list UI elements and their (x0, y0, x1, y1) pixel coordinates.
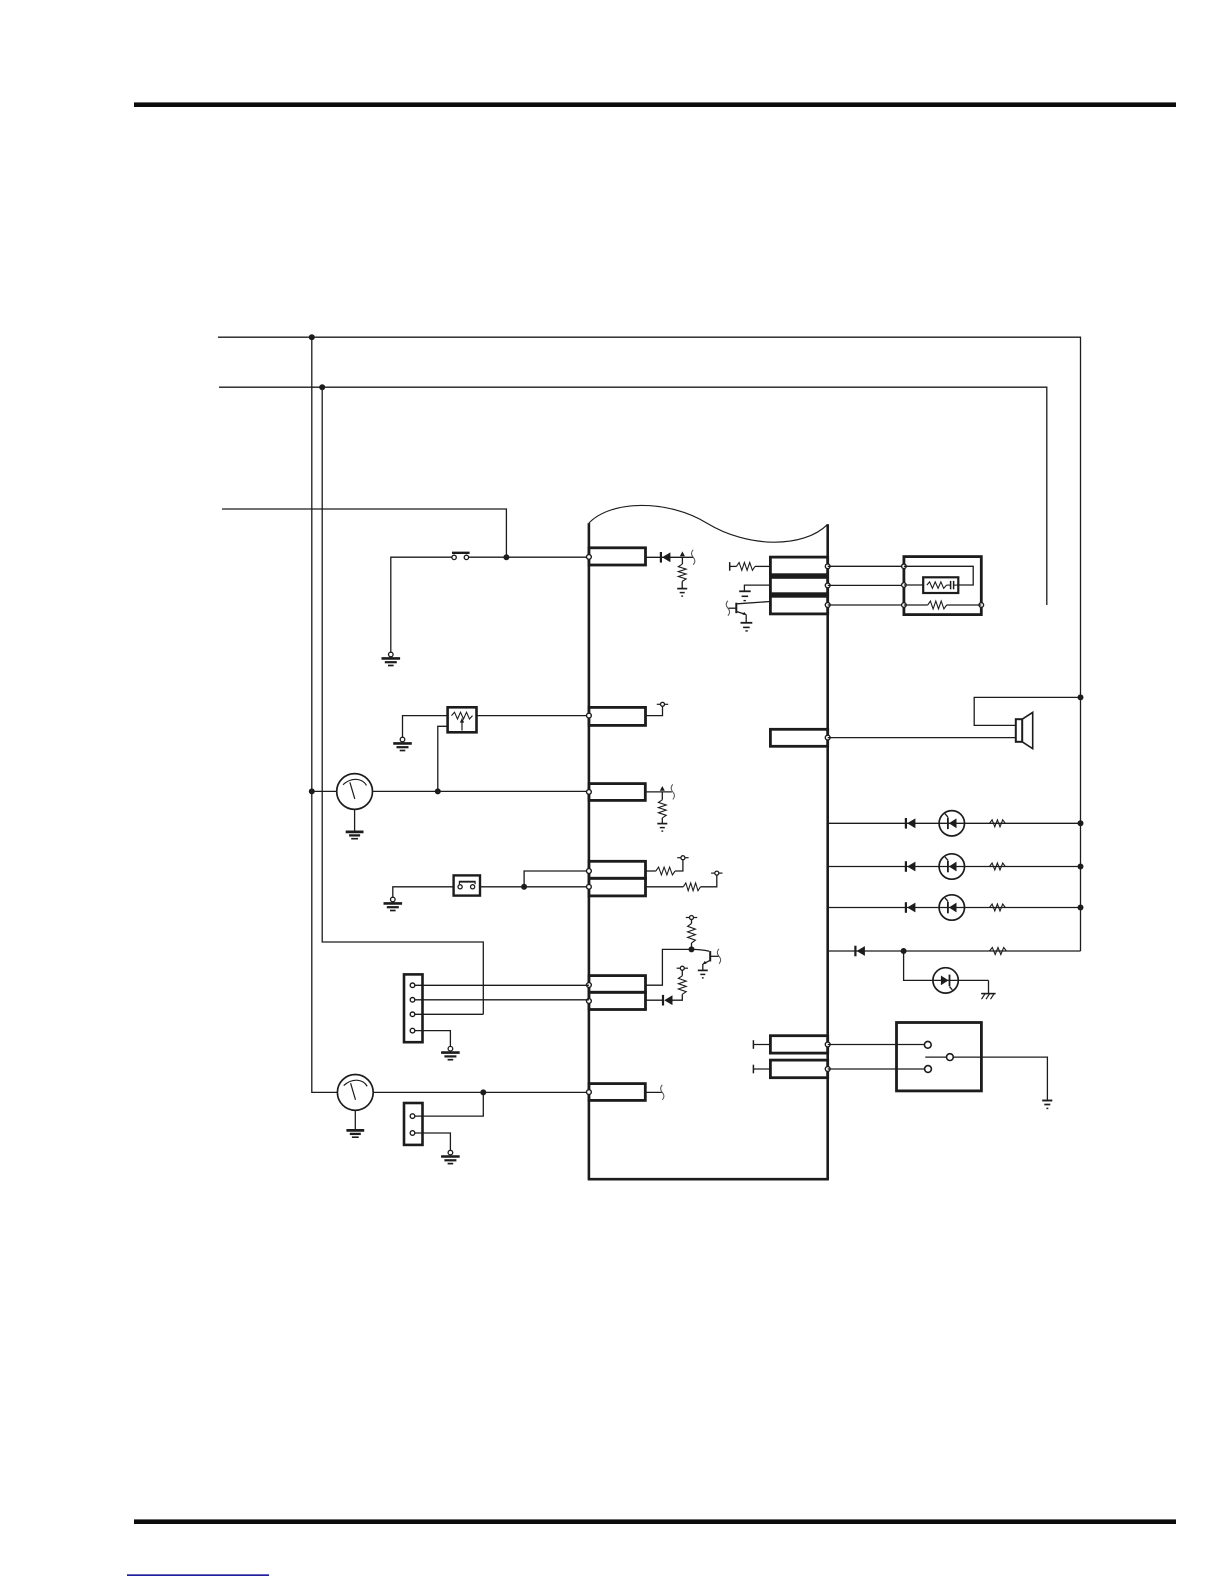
wire LED row 2 (828, 866, 1081, 868)
wire TP3 to R5 (691, 920, 693, 924)
wire Q2r to spark killer (828, 584, 904, 586)
wire M2 to P8 (373, 1091, 589, 1093)
switch S1 pushbutton (452, 553, 470, 560)
node bus3 junction (503, 554, 509, 560)
wire P8 internal (645, 1091, 662, 1093)
wire R2 to ground (661, 818, 663, 824)
ground G10 (441, 1150, 460, 1163)
transistor Q1 collector wire (737, 602, 770, 604)
wire R6 to TP4 (681, 970, 683, 976)
wire Q2 emitter to ground (702, 964, 704, 970)
resistor R12 (990, 904, 1006, 911)
connector SPK right (770, 729, 827, 746)
terminal TP2 (711, 871, 722, 875)
terminal TP1 (677, 856, 688, 860)
connector J2 2-pin (404, 1103, 423, 1145)
resistor R13 (990, 948, 1007, 955)
ground G14 (1042, 1101, 1052, 1109)
terminal TP0 (657, 702, 668, 706)
ground G1 (382, 652, 401, 665)
J2 pin 2 (410, 1131, 415, 1136)
J1 pin 3 (410, 1012, 415, 1017)
wire M1 to P3 (372, 790, 589, 792)
resistor R4 (683, 883, 700, 891)
SK1 pin a (902, 564, 907, 569)
ground G11 (739, 591, 751, 600)
pin P5 (587, 884, 592, 889)
wire switch row left (391, 557, 452, 652)
wire J1-2 to P7 (415, 999, 589, 1001)
diode D4 (906, 861, 916, 872)
pin P1 (587, 555, 592, 560)
resistor R6 (678, 976, 686, 995)
wire junction to P6 (646, 949, 692, 985)
wire P3 internal (645, 791, 672, 793)
spark killer SK1 box (904, 557, 981, 615)
ground G3 (393, 737, 412, 750)
wire S3 to ground (953, 1057, 1047, 1100)
SK1 pin c (902, 603, 907, 608)
pin P2 (587, 713, 592, 718)
diode D1 (661, 552, 671, 563)
top rule (134, 102, 1176, 107)
S3 lever (925, 1056, 946, 1058)
SK1 pin d (979, 603, 984, 608)
wire break Q1 base squiggle (726, 601, 729, 616)
connector Q3 right (770, 596, 827, 614)
resistor R5 (688, 924, 696, 944)
wire break Q3 squiggle (661, 1085, 664, 1100)
wire R4 to TP2 (701, 875, 717, 887)
PCB break wavy top edge (589, 505, 828, 542)
footer link underline (127, 1574, 269, 1576)
J1 pin 1 (410, 983, 415, 988)
J2 pin 1 (410, 1114, 415, 1119)
speaker LS1 (1016, 712, 1033, 748)
wire LED4 row (933, 979, 989, 981)
J1 pin 4 (410, 1028, 415, 1033)
LED4 indicator (933, 968, 958, 993)
pin E2r (825, 1067, 830, 1072)
wire left bus2 vertical (322, 387, 483, 1014)
LED3 indicator (939, 895, 964, 920)
wire J1-1 to P6 (415, 984, 589, 986)
wire R1 to ground (681, 581, 683, 588)
wire Q3r to spark killer (828, 604, 904, 606)
wire row 4 (828, 950, 1081, 952)
node base junction (689, 946, 695, 952)
wire J1-3 (415, 1013, 484, 1015)
pin P7 (587, 999, 592, 1004)
wire M1 to ground (354, 809, 356, 831)
wire stub bracket B2 (752, 1040, 754, 1049)
connector J1 4-pin (404, 974, 423, 1042)
wire P1 internal (646, 556, 694, 558)
wire Q1 emitter to ground (745, 614, 747, 622)
potentiometer VR1 wiper (460, 718, 464, 731)
diode D6 (855, 946, 865, 957)
node LED row 1 bus (1078, 820, 1084, 826)
wire LED4 branch (904, 951, 933, 980)
connector P3 left (589, 784, 645, 801)
wire R7 to Q1 (755, 565, 770, 567)
ground G6 (384, 897, 403, 910)
node bus2 left tap (319, 384, 325, 390)
wire P7 internal (646, 999, 664, 1001)
connector E1 right (770, 1036, 827, 1053)
meter M2 (337, 1075, 373, 1111)
wire bus to speaker (974, 697, 1080, 725)
arrow junction A1 (680, 551, 685, 556)
wire bus2 rail (219, 387, 1047, 605)
SK1 pin b (902, 583, 907, 588)
wire M2 to ground (354, 1110, 356, 1130)
node M2 branch (480, 1089, 486, 1095)
wire D2 to R6 (673, 994, 683, 1000)
pin SPKr (825, 735, 830, 740)
wire Q2 internal to ground (744, 585, 770, 591)
wire stub bracket B1 (729, 562, 731, 571)
resistor R7 (737, 563, 756, 571)
node wiper junction (435, 788, 441, 794)
ground G7 (698, 970, 708, 978)
pin Q2r (825, 583, 830, 588)
pin Q3r (825, 603, 830, 608)
wire J2-2 to ground (415, 1133, 451, 1150)
wire SK1 mid (904, 584, 923, 586)
wire J1-4 to ground (415, 1031, 451, 1047)
wire SK1 bottom left (904, 604, 928, 606)
diode D5 (906, 902, 916, 913)
wire LED row 3 (828, 907, 1081, 909)
wire pot left to ground (403, 716, 448, 738)
RC capacitor C1 (947, 581, 959, 589)
wire S2 left (393, 887, 454, 897)
connector P6 left (589, 976, 646, 993)
resistor R3 (656, 867, 675, 875)
pin P6 (587, 983, 592, 988)
wire J2-1 to M2 row (415, 1092, 484, 1116)
connector P2 left (589, 707, 646, 725)
wire P5 internal (646, 886, 684, 888)
pin P3 (587, 790, 592, 795)
node bus1 left tap (309, 334, 315, 340)
pin P8 (587, 1090, 592, 1095)
node LED row 2 bus (1078, 864, 1084, 870)
wire B2 (753, 1044, 770, 1046)
ground G9 (346, 1130, 364, 1137)
wire R5 to junction (691, 943, 693, 949)
S3 common (947, 1054, 954, 1061)
wire LED row 1 (828, 822, 1081, 824)
transistor Q2 collector wire (692, 949, 710, 951)
node LED4 branch (901, 948, 907, 954)
J1 pin 2 (410, 998, 415, 1003)
wire R3 to TP1 (675, 860, 683, 871)
wire break Q1 squiggle (692, 550, 695, 565)
RC network box (923, 577, 958, 593)
ground G2 (677, 589, 687, 597)
wire to R2 (661, 792, 663, 800)
connector Q1 right (770, 557, 827, 575)
connector P8 left (589, 1084, 645, 1101)
pin E1r (825, 1042, 830, 1047)
potentiometer VR1 element (452, 712, 473, 719)
pin P4 (587, 869, 592, 874)
switch S2 contacts (458, 882, 476, 889)
PCB main board bottom edge (588, 1178, 829, 1181)
node S2 branch (521, 884, 527, 890)
wire B1 to R7 (730, 565, 737, 567)
transistor Q2 (703, 951, 719, 964)
pin Q1r (825, 564, 830, 569)
PCB main board left edge (588, 523, 591, 1179)
switch S3 box (897, 1023, 982, 1091)
S3 contact b (925, 1066, 932, 1073)
PCB main board right edge (826, 524, 829, 1179)
wire bus3 rail (222, 509, 506, 557)
resistor R11 (990, 863, 1006, 870)
wire stub bracket B3 (752, 1065, 754, 1074)
connector E2 right (770, 1060, 827, 1078)
bottom rule (134, 1519, 1176, 1524)
wire SPKr to speaker (828, 737, 1016, 739)
switch S2 box (454, 875, 480, 895)
connector Q2 right (770, 577, 827, 593)
wire P2 internal (646, 706, 663, 715)
wire E1 to switch (828, 1044, 925, 1046)
resistor R2 (658, 800, 666, 818)
wire D1 to R1 (681, 557, 683, 564)
wire LED4 to ground (988, 980, 990, 993)
transistor Q1 (728, 603, 746, 615)
LED1 indicator (939, 811, 964, 836)
wire branch to P4 (524, 871, 589, 887)
diode D2 (663, 995, 673, 1006)
S3 contact a (924, 1041, 931, 1048)
wire break Q2 base squiggle (717, 949, 720, 964)
wire E2 to switch (828, 1068, 925, 1070)
wire S2 to P5 (480, 886, 589, 888)
ground G4 (346, 832, 364, 839)
resistor R9 (928, 601, 947, 609)
wire Q1r to spark killer (828, 565, 904, 567)
wire SK1 top loop (904, 566, 973, 585)
node speaker bus tap (1078, 694, 1084, 700)
wire B3 (753, 1068, 770, 1070)
meter M1 (337, 774, 373, 810)
resistor R1 (678, 564, 686, 581)
LED2 indicator (939, 854, 964, 879)
ground G8 (441, 1046, 460, 1059)
ground G13 chassis (981, 994, 995, 1000)
wire SK1 bottom right (947, 604, 982, 606)
wire bus to meter M1 (312, 790, 337, 792)
wire left bus1 vertical (312, 337, 338, 1092)
node meter1 bus tap (309, 788, 315, 794)
wire P4 internal (646, 870, 656, 872)
node LED row 3 bus (1078, 905, 1084, 911)
arrow junction A2 (660, 786, 665, 791)
connector P4 left (589, 861, 646, 878)
resistor R10 (990, 820, 1006, 827)
connector P1 left (589, 548, 646, 565)
RC resistor R8 (927, 582, 947, 588)
ground G5 (657, 824, 667, 832)
terminal TP3 (686, 916, 697, 920)
wire bus1 +B top rail (218, 337, 1081, 951)
wire break Q2 squiggle (671, 784, 674, 799)
connector P7 left (589, 992, 646, 1009)
wire pot wiper tap (438, 726, 448, 791)
terminal TP4 (677, 966, 688, 970)
ground G12 (741, 623, 753, 631)
wire switch to connector P1 (469, 556, 589, 558)
wire pot right to P2 (477, 715, 589, 717)
connector P5 left (589, 878, 646, 896)
potentiometer VR1 box (448, 707, 477, 732)
diode D3 (906, 818, 916, 829)
